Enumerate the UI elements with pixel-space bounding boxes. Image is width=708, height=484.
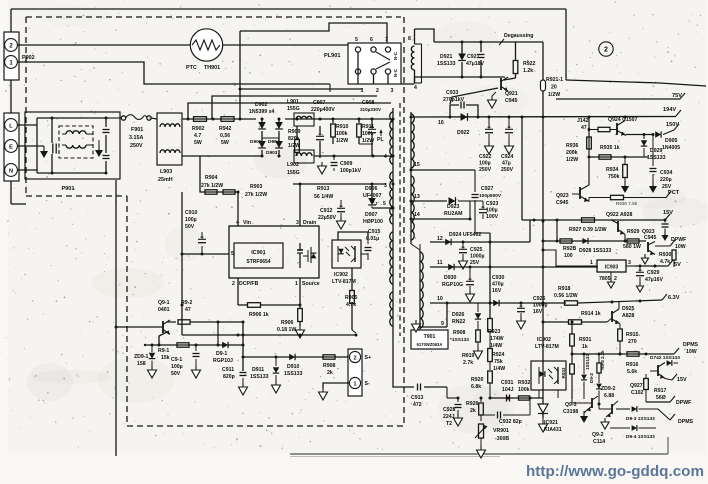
svg-text:100µ: 100µ xyxy=(185,217,197,223)
svg-text:75k: 75k xyxy=(494,359,503,365)
wire 15V to R927 link xyxy=(556,220,559,243)
svg-text:Q927: Q927 xyxy=(630,383,643,389)
svg-text:RN22: RN22 xyxy=(452,319,465,325)
wire rail15v drop xyxy=(521,117,523,220)
transistor Q925 xyxy=(607,302,635,324)
svg-text:C931: C931 xyxy=(501,380,514,386)
svg-text:IC903: IC903 xyxy=(605,265,619,271)
wire L903 top out xyxy=(182,118,256,121)
transistor Q926 xyxy=(650,354,687,383)
svg-text:1SS133: 1SS133 xyxy=(437,61,456,67)
svg-text:1N4005: 1N4005 xyxy=(662,145,680,151)
svg-text:75V: 75V xyxy=(672,93,682,99)
resistor R9-1 xyxy=(158,343,189,361)
wire rail 15V xyxy=(522,210,673,222)
node page number 2 xyxy=(599,42,613,56)
svg-text:-300B: -300B xyxy=(495,436,509,442)
svg-text:6170WZ063A: 6170WZ063A xyxy=(417,342,443,347)
svg-text:C102: C102 xyxy=(631,390,644,396)
ground E arrow xyxy=(38,146,48,158)
thermistor PTC TH901 xyxy=(186,29,223,71)
svg-text:R9-2: R9-2 xyxy=(181,300,192,306)
resistor R911 xyxy=(357,119,375,144)
resistor R9-2 xyxy=(167,300,245,324)
svg-text:R936: R936 xyxy=(566,143,579,149)
svg-text:C912: C912 xyxy=(320,208,333,214)
svg-text:20: 20 xyxy=(551,85,557,91)
svg-text:D907: D907 xyxy=(365,212,378,218)
svg-text:1: 1 xyxy=(354,382,357,388)
resistor R908 xyxy=(323,355,336,376)
svg-text:C924: C924 xyxy=(501,154,514,160)
capacitor C928 xyxy=(443,397,463,428)
diode D928 xyxy=(579,238,611,254)
svg-text:4.7k: 4.7k xyxy=(346,302,356,308)
wire pin12 up xyxy=(529,220,531,242)
resistor R928b xyxy=(560,239,577,259)
node rail 194V end xyxy=(663,107,681,116)
svg-text:200k: 200k xyxy=(566,150,578,156)
diode D908 xyxy=(450,303,481,343)
svg-text:10: 10 xyxy=(437,296,443,302)
svg-text:220µ400V: 220µ400V xyxy=(311,107,335,113)
svg-text:4: 4 xyxy=(414,85,417,91)
svg-text:2: 2 xyxy=(376,88,379,94)
diode D924 xyxy=(449,232,481,238)
svg-text:1SS133: 1SS133 xyxy=(250,374,269,380)
diode D921 xyxy=(437,42,466,77)
wire degauss loop upper xyxy=(240,23,387,44)
svg-text:T901: T901 xyxy=(424,334,436,340)
svg-text:1k: 1k xyxy=(582,344,588,350)
svg-text:C910: C910 xyxy=(185,210,198,216)
svg-text:158: 158 xyxy=(137,361,146,367)
svg-text:HØP100: HØP100 xyxy=(363,219,383,225)
resistor R902 xyxy=(192,117,207,146)
wire sense out xyxy=(243,356,350,359)
svg-text:0.18 1W: 0.18 1W xyxy=(277,327,296,333)
svg-text:R942: R942 xyxy=(219,126,232,132)
svg-text:D903: D903 xyxy=(266,150,278,156)
wire bottom return xyxy=(182,334,358,337)
svg-text:100µ: 100µ xyxy=(479,161,491,167)
svg-text:KIA431: KIA431 xyxy=(544,427,562,433)
diode D742 xyxy=(646,354,680,366)
wire q91 emitter xyxy=(159,332,167,345)
inductor L901 xyxy=(287,99,314,126)
svg-text:1/4W: 1/4W xyxy=(493,366,505,372)
svg-text:C930: C930 xyxy=(492,275,505,281)
capacitor C927 xyxy=(472,170,502,233)
wire P902-2 to PTC xyxy=(17,44,190,46)
transistor Q9-3 xyxy=(563,392,599,423)
wire q922 lower xyxy=(542,240,647,243)
wire q924 emitter xyxy=(626,133,655,136)
svg-text:100µ: 100µ xyxy=(171,364,183,370)
resistor R936 xyxy=(566,137,591,163)
resistor R914 xyxy=(542,311,608,324)
resistor R933 xyxy=(561,364,574,399)
connector P901 input xyxy=(4,113,19,181)
svg-text:C907: C907 xyxy=(313,100,326,106)
node L901 label xyxy=(287,106,300,112)
svg-text:D742 1SS133: D742 1SS133 xyxy=(650,355,680,361)
svg-text:A828: A828 xyxy=(622,313,635,319)
svg-text:C933: C933 xyxy=(446,90,459,96)
resistor R905 xyxy=(345,268,358,335)
node T901 label xyxy=(411,330,448,349)
node D907 labels xyxy=(363,199,383,225)
svg-text:Source: Source xyxy=(302,281,320,287)
svg-text:http://www.go-gddq.com: http://www.go-gddq.com xyxy=(526,463,704,480)
svg-text:R933: R933 xyxy=(561,367,566,378)
svg-text:D929: D929 xyxy=(650,148,663,154)
capacitor C907 xyxy=(311,100,335,174)
svg-text:16: 16 xyxy=(438,120,444,126)
resistor R906s xyxy=(277,309,305,339)
svg-text:2k: 2k xyxy=(470,408,476,414)
svg-text:470µ: 470µ xyxy=(492,282,504,288)
resistor R906fb xyxy=(238,303,302,318)
zener ZD9-1 xyxy=(134,344,157,379)
transistor Q9-2 xyxy=(592,395,618,445)
wire pin2 FB xyxy=(237,278,239,305)
svg-text:J142: J142 xyxy=(577,118,589,124)
svg-text:15k: 15k xyxy=(161,355,170,361)
svg-text:R927 0.39 1/2W: R927 0.39 1/2W xyxy=(569,227,607,233)
capacitor C915 sym xyxy=(365,240,372,260)
svg-text:270: 270 xyxy=(628,339,637,345)
resistor R910 xyxy=(331,119,349,144)
svg-text:310µ330V: 310µ330V xyxy=(360,107,382,112)
svg-text:C926: C926 xyxy=(533,296,546,302)
svg-text:3.15A: 3.15A xyxy=(129,135,143,141)
svg-text:IC902: IC902 xyxy=(537,337,551,343)
resistor R9-3 xyxy=(597,350,605,373)
svg-text:194V: 194V xyxy=(663,107,676,113)
svg-text:8: 8 xyxy=(408,36,411,42)
svg-text:14: 14 xyxy=(414,212,420,218)
svg-text:5: 5 xyxy=(231,251,234,257)
diode D9-1 xyxy=(213,342,233,364)
wire PTC to relay xyxy=(223,44,348,46)
transistor Q923b xyxy=(642,229,687,264)
svg-text:2: 2 xyxy=(354,356,357,362)
wire dc bus bottom xyxy=(314,155,394,158)
svg-text:R909: R909 xyxy=(288,129,301,135)
svg-text:4.7k: 4.7k xyxy=(660,259,670,265)
svg-text:R914 1k: R914 1k xyxy=(581,311,601,317)
svg-text:6: 6 xyxy=(370,37,373,43)
svg-text:4: 4 xyxy=(384,154,387,160)
resistor R926 xyxy=(466,397,483,422)
svg-text:P902: P902 xyxy=(22,55,35,61)
svg-text:D925: D925 xyxy=(622,306,635,312)
inductor L902 xyxy=(287,150,314,176)
transformer T901 primary xyxy=(390,108,395,330)
svg-text:C922: C922 xyxy=(479,154,492,160)
resistor R909 xyxy=(288,126,301,156)
svg-text:Q923: Q923 xyxy=(556,193,569,199)
svg-text:C927: C927 xyxy=(481,186,494,192)
svg-text:DPMS: DPMS xyxy=(678,419,694,425)
svg-text:PCT: PCT xyxy=(668,190,680,196)
capacitor C913 xyxy=(411,384,447,409)
svg-text:1: 1 xyxy=(590,260,593,266)
svg-text:R920: R920 xyxy=(471,377,484,383)
wire vertical x240 xyxy=(239,31,241,119)
svg-text:Q922 A928: Q922 A928 xyxy=(606,212,632,218)
wire r904 feed xyxy=(200,156,238,192)
wire fb vertical xyxy=(475,233,492,318)
capacitor C912 xyxy=(318,200,346,229)
resistor R942 xyxy=(219,117,234,146)
wire primary bottom xyxy=(393,330,414,387)
svg-text:E: E xyxy=(9,145,13,151)
node bridge labels xyxy=(249,102,274,115)
svg-text:S+: S+ xyxy=(365,355,372,361)
resistor R935 xyxy=(599,145,620,159)
diode D911 xyxy=(250,357,281,393)
capacitor C924 xyxy=(501,117,514,173)
svg-text:L901: L901 xyxy=(287,99,299,105)
svg-text:25V: 25V xyxy=(470,260,480,266)
capacitor C910 xyxy=(182,210,206,254)
transistor Q927 xyxy=(630,374,646,396)
svg-text:155G: 155G xyxy=(287,170,300,176)
svg-text:7: 7 xyxy=(385,37,388,43)
svg-text:D902: D902 xyxy=(255,102,268,108)
capacitor CX2a xyxy=(103,118,110,153)
svg-text:R915: R915 xyxy=(626,332,639,338)
svg-text:3: 3 xyxy=(384,183,387,189)
diode D922 xyxy=(457,113,470,136)
svg-text:16V: 16V xyxy=(492,288,502,294)
svg-text:250V: 250V xyxy=(479,167,492,173)
svg-text:250V: 250V xyxy=(501,167,514,173)
wire pin16 rail xyxy=(411,116,676,127)
wire degauss top xyxy=(434,41,543,44)
svg-text:Q9-2: Q9-2 xyxy=(592,432,604,438)
wire top border xyxy=(11,9,566,33)
svg-text:5: 5 xyxy=(383,201,386,207)
diode D903 xyxy=(266,118,283,158)
svg-text:D922: D922 xyxy=(457,130,470,136)
wire top-right rail xyxy=(566,80,706,86)
svg-text:R929: R929 xyxy=(627,229,640,235)
svg-text:D9-2: D9-2 xyxy=(589,373,594,383)
wire s- line xyxy=(319,383,350,400)
svg-text:R904: R904 xyxy=(205,175,218,181)
svg-text:C945: C945 xyxy=(556,200,569,206)
svg-text:220µ: 220µ xyxy=(660,177,672,183)
svg-text:1000µ: 1000µ xyxy=(470,254,485,260)
wire degauss tap xyxy=(497,42,516,60)
resistor R930b2 xyxy=(659,248,676,267)
wire N in xyxy=(17,169,37,171)
svg-text:R903: R903 xyxy=(250,184,263,190)
capacitor C931 xyxy=(501,380,514,402)
svg-text:5W: 5W xyxy=(221,140,229,146)
resistor R932 xyxy=(518,380,531,400)
potentiometer VR901 xyxy=(475,424,509,458)
wire pin1 source xyxy=(299,278,301,309)
resistor R918 xyxy=(554,286,680,305)
svg-text:50V: 50V xyxy=(185,224,195,230)
capacitor C911 xyxy=(222,367,248,395)
svg-text:174W: 174W xyxy=(490,336,504,342)
ground mid arrow xyxy=(95,140,103,157)
wire pin5 feed xyxy=(182,253,229,256)
wire E in xyxy=(17,145,38,147)
svg-text:C928: C928 xyxy=(443,407,456,413)
capacitor C909 xyxy=(331,156,362,174)
svg-text:D928 1SS133: D928 1SS133 xyxy=(579,248,611,254)
svg-text:15V: 15V xyxy=(663,210,673,216)
wire rail dpms xyxy=(572,342,699,356)
wire pin13 xyxy=(411,194,447,201)
svg-text:16V: 16V xyxy=(533,309,543,315)
svg-text:6.8k: 6.8k xyxy=(471,384,481,390)
svg-text:2: 2 xyxy=(614,276,617,282)
svg-text:100µ: 100µ xyxy=(486,208,498,214)
svg-text:TH901: TH901 xyxy=(204,65,220,71)
wire hv vertical xyxy=(542,42,545,418)
svg-text:R905: R905 xyxy=(345,295,358,301)
wire pin12 xyxy=(420,236,530,244)
svg-text:7805: 7805 xyxy=(599,276,611,282)
resistor R921-1 xyxy=(541,77,564,98)
svg-text:PTC: PTC xyxy=(186,65,197,71)
wire vcc rail xyxy=(181,192,239,335)
svg-text:STRF6654: STRF6654 xyxy=(246,259,270,265)
wire L in xyxy=(17,124,37,126)
svg-text:D9-3 1SS133: D9-3 1SS133 xyxy=(626,416,655,422)
transformer T901 secondary upper xyxy=(410,112,415,244)
svg-text:1.2k: 1.2k xyxy=(523,68,533,74)
resistor R924 xyxy=(488,332,506,373)
wire rail 75V xyxy=(556,93,685,99)
svg-text:R935 1k: R935 1k xyxy=(600,145,620,151)
svg-text:C9-1: C9-1 xyxy=(171,357,182,363)
diode D923 xyxy=(444,197,470,217)
svg-text:LTV-817M: LTV-817M xyxy=(535,344,559,350)
diode D9-3 xyxy=(616,401,694,425)
op-amp IC901 STRF6654 xyxy=(229,220,320,287)
svg-text:PL: PL xyxy=(377,137,384,143)
capacitor C921 xyxy=(466,42,485,77)
capacitor CX1 xyxy=(52,118,56,173)
svg-text:R902: R902 xyxy=(192,126,205,132)
wire opto top xyxy=(338,232,368,240)
svg-text:3: 3 xyxy=(628,260,631,266)
svg-text:C915: C915 xyxy=(368,229,381,235)
diode D901 xyxy=(250,119,266,145)
wire Q921 base xyxy=(450,88,498,104)
svg-text:R930: R930 xyxy=(659,252,672,258)
op-amp IC903 7805 xyxy=(590,260,634,288)
transformer T901 secondary lower xyxy=(411,244,423,330)
svg-text:F901: F901 xyxy=(131,127,143,133)
svg-text:Q9-1: Q9-1 xyxy=(158,300,170,306)
svg-text:PL901: PL901 xyxy=(324,53,340,59)
svg-text:R934: R934 xyxy=(606,167,619,173)
resistor R913 xyxy=(314,186,333,200)
capacitor C926 xyxy=(517,296,548,329)
svg-text:DPWF: DPWF xyxy=(676,400,691,406)
svg-text:3: 3 xyxy=(391,88,394,94)
resistor R916 xyxy=(626,352,639,375)
svg-text:T2: T2 xyxy=(446,421,452,427)
diode D9-2 xyxy=(581,354,594,399)
resistor R915 xyxy=(618,324,639,356)
svg-text:R9-1: R9-1 xyxy=(158,348,169,354)
svg-text:5: 5 xyxy=(355,37,358,43)
resistor R919 xyxy=(462,330,483,366)
diode D906 xyxy=(363,184,382,208)
svg-text:47: 47 xyxy=(185,307,191,313)
svg-text:R917: R917 xyxy=(654,388,667,394)
wire dpwf2 xyxy=(646,396,691,406)
svg-text:4.7: 4.7 xyxy=(194,133,201,139)
wire dc bus top xyxy=(285,118,394,123)
svg-text:2: 2 xyxy=(232,281,235,287)
capacitor C923 xyxy=(470,201,499,220)
svg-text:2: 2 xyxy=(604,47,608,54)
svg-text:47µ: 47µ xyxy=(502,161,511,167)
svg-text:D926: D926 xyxy=(452,312,465,318)
svg-text:580 1W: 580 1W xyxy=(623,244,641,250)
svg-text:1/2W: 1/2W xyxy=(548,92,560,98)
transistor IC901 mosfet xyxy=(297,243,316,268)
svg-text:13: 13 xyxy=(414,194,420,200)
resistor R904 xyxy=(201,175,223,194)
svg-text:C923: C923 xyxy=(486,201,499,207)
svg-text:6.3V: 6.3V xyxy=(668,295,680,301)
svg-text:250V: 250V xyxy=(130,143,143,149)
svg-text:L: L xyxy=(9,124,13,130)
svg-text:R908: R908 xyxy=(323,363,336,369)
svg-text:R926: R926 xyxy=(466,401,479,407)
svg-text:DCP/FB: DCP/FB xyxy=(239,281,259,287)
svg-text:VR901: VR901 xyxy=(493,428,509,434)
svg-text:5V: 5V xyxy=(674,262,681,268)
svg-text:ZD9-1: ZD9-1 xyxy=(134,354,149,360)
svg-text:R919: R919 xyxy=(462,353,475,359)
svg-text:Q924 C1507: Q924 C1507 xyxy=(608,117,638,123)
wire base chain xyxy=(589,156,648,159)
diode D930 xyxy=(442,264,463,288)
svg-text:2.7k: 2.7k xyxy=(463,360,473,366)
svg-text:D923: D923 xyxy=(447,204,460,210)
wire pin14 xyxy=(411,201,472,221)
capacitor C934 xyxy=(649,135,673,194)
svg-text:P901: P901 xyxy=(61,186,74,192)
svg-text:Q921: Q921 xyxy=(505,91,518,97)
node primary pins xyxy=(384,118,395,190)
svg-text:12: 12 xyxy=(437,236,443,242)
svg-text:1/2W: 1/2W xyxy=(288,143,300,149)
svg-text:1: 1 xyxy=(295,281,298,287)
wire degauss bottom xyxy=(415,76,506,84)
svg-text:1: 1 xyxy=(361,88,364,94)
svg-text:47µ16V: 47µ16V xyxy=(645,277,664,283)
svg-text:IC901: IC901 xyxy=(251,250,265,256)
svg-text:C114: C114 xyxy=(593,439,605,445)
svg-text:820k: 820k xyxy=(288,136,300,142)
connector S+/S- xyxy=(348,349,371,396)
svg-text:C3198: C3198 xyxy=(563,409,578,415)
